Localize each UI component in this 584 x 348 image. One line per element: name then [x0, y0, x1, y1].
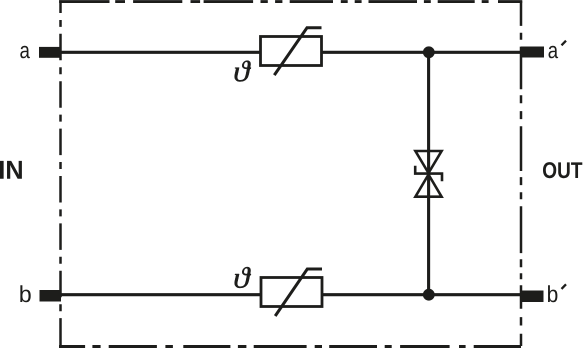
label b prime mark [562, 284, 567, 289]
enclosure border right [520, 1, 523, 347]
terminal a pad [39, 47, 60, 58]
wire a to a' (top line) [61, 51, 522, 54]
enclosure border top [59, 0, 522, 3]
TVS diode D1 cathode Z-bar [415, 166, 442, 182]
label b [20, 285, 30, 302]
label a [20, 46, 30, 59]
varistor RV2 thermal label theta [235, 267, 251, 288]
enclosure border left [59, 0, 62, 347]
junction node bottom [423, 289, 435, 301]
varistor RV2 diagonal stroke [275, 269, 322, 316]
terminal a' pad [521, 47, 544, 58]
enclosure border bottom [59, 345, 522, 348]
TVS diode D1 lower triangle [415, 175, 441, 197]
varistor RV1 diagonal stroke [274, 28, 321, 75]
varistor RV2 body [261, 278, 322, 307]
wire b to b' (bottom line) [61, 293, 522, 296]
TVS diode D1 upper triangle [415, 151, 441, 173]
varistor RV1 body [261, 37, 322, 66]
wire TVS branch vertical [427, 52, 430, 294]
junction node top [423, 46, 435, 58]
label a' [549, 46, 559, 59]
terminal b' pad [521, 291, 544, 303]
label a prime mark [562, 41, 567, 46]
label OUT [543, 162, 582, 178]
label b' [548, 285, 557, 302]
varistor RV1 thermal label theta [235, 61, 251, 82]
terminal b pad [40, 290, 62, 302]
label IN [0, 161, 22, 179]
